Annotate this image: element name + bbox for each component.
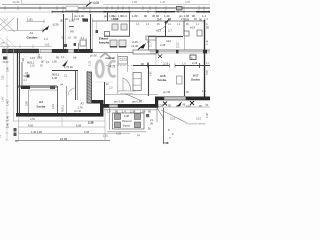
svg-text:2,1: 2,1 <box>150 118 154 122</box>
dim chain right below wall <box>158 106 210 108</box>
stair corner square 3 <box>115 122 121 128</box>
wall bottom A12 row <box>148 36 183 38</box>
svg-text:2,10: 2,10 <box>37 56 43 60</box>
dimension ticks row <box>51 11 53 14</box>
wall top-left block solid <box>2 49 39 53</box>
garden hatch diagonal 3 <box>0 24 8 32</box>
vline x86 <box>86 38 88 49</box>
svg-text:14,5: 14,5 <box>30 56 36 60</box>
dim chain center line <box>104 109 157 111</box>
hall fixture rect <box>80 40 86 46</box>
wall vertical x107 <box>107 12 109 21</box>
watermark letter C <box>109 61 116 76</box>
svg-text:90: 90 <box>144 14 148 18</box>
svg-text:lépcső: lépcső <box>123 124 131 127</box>
svg-text:A4: A4 <box>60 83 64 87</box>
A4 inner wall left <box>28 90 30 113</box>
left wall outer line <box>13 49 15 121</box>
svg-text:1,40: 1,40 <box>206 40 209 45</box>
wall vertical A16 left <box>148 66 150 97</box>
svg-text:1,81: 1,81 <box>27 18 33 22</box>
svg-text:pm 46: pm 46 <box>74 110 82 113</box>
dimension tick x72 <box>72 13 74 21</box>
A4 north wall <box>18 85 57 87</box>
interior top wall line <box>92 20 204 22</box>
svg-text:pm: pm <box>2 42 5 45</box>
garden dim line upper <box>26 20 44 22</box>
watermark letter O <box>96 61 103 77</box>
wall vertical A14 left <box>183 21 185 36</box>
svg-text:nappali: nappali <box>106 56 116 60</box>
dining table 1 <box>112 24 118 30</box>
door X below A12 <box>158 55 162 59</box>
svg-text:2,1: 2,1 <box>24 79 28 82</box>
tick x199 <box>199 63 201 68</box>
svg-text:1,46: 1,46 <box>6 100 10 106</box>
svg-text:2,10: 2,10 <box>30 65 35 68</box>
A4 north wall dark seg <box>21 86 30 89</box>
stair vline left <box>109 108 111 130</box>
north arrow mark <box>45 26 50 30</box>
svg-text:1,4: 1,4 <box>0 134 2 138</box>
svg-text:2,38: 2,38 <box>163 141 169 145</box>
dim row 2 <box>18 126 105 128</box>
svg-text:1,02: 1,02 <box>45 44 50 47</box>
door symbol blob <box>83 19 89 22</box>
kitchen bottom wall <box>104 35 130 37</box>
vert line center <box>127 57 129 72</box>
kitchen counter blob <box>105 32 110 37</box>
interior wall line <box>93 52 133 54</box>
svg-text:2,1: 2,1 <box>81 37 85 40</box>
svg-text:1,90: 1,90 <box>52 61 57 64</box>
svg-text:A14: A14 <box>190 26 195 30</box>
svg-text:1,40: 1,40 <box>52 76 58 80</box>
svg-text:A5: A5 <box>25 71 29 75</box>
svg-text:Y: Y <box>169 136 171 140</box>
door arc living <box>123 78 131 91</box>
svg-text:A3: A3 <box>30 31 34 35</box>
svg-text:2,10: 2,10 <box>196 117 202 121</box>
dim left cluster dark <box>14 128 17 132</box>
window in wall <box>40 49 52 52</box>
svg-text:2,45: 2,45 <box>160 43 166 47</box>
svg-text:2,10: 2,10 <box>89 61 92 66</box>
small rect right of watermark <box>118 57 128 65</box>
svg-text:A6: A6 <box>73 56 77 60</box>
label box on dimension line <box>66 6 78 11</box>
svg-text:A12: A12 <box>166 39 171 43</box>
window band right <box>150 51 210 53</box>
svg-text:2,62: 2,62 <box>2 75 5 80</box>
vline x78 <box>78 43 80 52</box>
bottom wall center window <box>109 104 118 107</box>
dashed line living <box>106 65 133 67</box>
svg-text:1,76 26: 1,76 26 <box>64 65 73 69</box>
tick on wall <box>147 63 149 68</box>
A4 inner wall top <box>29 89 58 91</box>
svg-text:1,02: 1,02 <box>69 19 75 23</box>
svg-text:90/2,1: 90/2,1 <box>62 104 65 112</box>
A4 east wall <box>57 86 59 113</box>
A4 east wall second face <box>66 86 68 113</box>
garden hatch diagonal 4 <box>0 18 8 25</box>
svg-text:1,40: 1,40 <box>160 0 166 4</box>
wall vertical hall right <box>90 14 92 53</box>
dimension line top chain 2 <box>0 7 210 9</box>
hall tick <box>38 54 40 58</box>
dimension line top chain 3 <box>52 11 210 13</box>
svg-text:Pinceszint lejárata: Pinceszint lejárata <box>186 122 206 125</box>
svg-text:Garden: Garden <box>27 36 38 40</box>
svg-text:2,16: 2,16 <box>192 61 198 65</box>
wall segment 2 <box>74 49 93 53</box>
inner face line center <box>105 94 158 96</box>
hall wall horizontal <box>52 70 78 72</box>
svg-text:Szoba: Szoba <box>158 78 167 82</box>
svg-text:2,38: 2,38 <box>84 130 90 134</box>
door X mark 1 <box>163 102 167 106</box>
svg-text:pinceszint lejáró: pinceszint lejáró <box>118 90 137 93</box>
A7 corner wall horizontal <box>88 100 104 104</box>
bathtub <box>133 50 156 54</box>
hall door arrow <box>62 60 68 67</box>
svg-text:14,30: 14,30 <box>13 0 20 4</box>
bottom wall center dark1 <box>103 104 109 108</box>
svg-text:1,40: 1,40 <box>6 122 10 128</box>
svg-text:K: K <box>168 128 170 132</box>
svg-text:90: 90 <box>148 109 151 113</box>
svg-text:3,65: 3,65 <box>206 70 209 75</box>
dim row 4 <box>16 140 110 142</box>
wall vertical x156 <box>155 37 157 51</box>
svg-text:-4,75: -4,75 <box>109 65 116 69</box>
dimension ticks chain 2 <box>4 6 6 9</box>
wc fixture 1 <box>184 31 189 36</box>
door gap wall A16 <box>170 65 176 67</box>
dining table 4 <box>119 40 126 47</box>
wall post 2 <box>176 50 179 54</box>
door X mark 2 <box>190 101 194 105</box>
small fixture marks <box>96 30 99 33</box>
wc fixture 2 <box>197 30 202 36</box>
svg-text:+4,05: +4,05 <box>91 1 99 5</box>
garden boundary vertical <box>17 18 19 31</box>
svg-text:2,38: 2,38 <box>158 104 164 108</box>
entrance blob <box>3 57 8 60</box>
porch wall <box>21 62 23 86</box>
svg-text:A7: A7 <box>81 102 85 106</box>
note underline <box>120 93 133 95</box>
interior wall A16 A17 top <box>133 65 210 67</box>
door blob b <box>74 43 77 46</box>
svg-text:3,1: 3,1 <box>147 40 151 44</box>
stair shaft left wall <box>156 108 158 122</box>
porch small marks <box>22 58 24 62</box>
tooltip box top <box>22 0 90 4</box>
stair diagonal <box>126 94 142 101</box>
door blob a <box>64 44 67 47</box>
svg-text:2,38: 2,38 <box>206 113 209 118</box>
stair bottom line <box>107 131 146 133</box>
svg-text:1,05: 1,05 <box>184 18 190 22</box>
svg-text:1,0: 1,0 <box>123 14 127 18</box>
leader line <box>161 110 186 123</box>
watermark roof <box>100 53 111 58</box>
svg-text:konyha: konyha <box>99 41 110 45</box>
svg-text:pm 90: pm 90 <box>90 55 97 58</box>
stair corner square 2 <box>135 114 141 120</box>
door mark top A4 <box>50 86 55 89</box>
svg-text:2,10: 2,10 <box>103 135 108 138</box>
wall vertical x129 <box>129 12 131 37</box>
stair corner square 4 <box>135 122 141 128</box>
svg-text:Szoba: Szoba <box>191 78 200 82</box>
diagonal to stairs <box>157 108 164 118</box>
left exterior wall <box>17 49 19 116</box>
wall right exterior <box>204 20 206 100</box>
wall line x117 <box>117 54 119 94</box>
dining table 3 <box>110 40 117 47</box>
ticks above left wall <box>7 45 9 49</box>
vline at bath right <box>155 54 157 66</box>
svg-text:pm 5,08: pm 5,08 <box>114 100 124 104</box>
svg-text:1,40: 1,40 <box>6 115 10 121</box>
svg-text:1,80: 1,80 <box>132 14 138 18</box>
svg-text:A6: A6 <box>70 30 74 34</box>
wall vertical A12-A13 <box>165 21 167 37</box>
stair box outer <box>113 113 145 129</box>
bottom wall right window <box>164 97 186 100</box>
svg-text:4,50: 4,50 <box>30 117 36 121</box>
svg-text:2,38: 2,38 <box>88 121 94 125</box>
dining table 2 <box>121 24 127 30</box>
svg-text:1,0: 1,0 <box>182 63 186 66</box>
door arc hall to A4 <box>68 88 76 96</box>
pen arrow 46 <box>177 102 182 107</box>
wall line y50 <box>148 49 210 51</box>
K box <box>190 55 196 60</box>
svg-text:1,0: 1,0 <box>44 37 48 41</box>
left dim chain <box>6 36 8 140</box>
svg-text:1,4: 1,4 <box>202 89 206 93</box>
svg-text:2,1: 2,1 <box>206 61 210 65</box>
svg-text:1,40 2,38: 1,40 2,38 <box>31 130 42 134</box>
svg-text:±0,00: ±0,00 <box>3 62 9 64</box>
svg-text:4,05: 4,05 <box>185 0 191 4</box>
svg-text:1,0: 1,0 <box>107 109 111 113</box>
wall vertical hall left <box>63 14 65 49</box>
bottom wall center dark2 <box>118 104 158 108</box>
wall x104 <box>104 82 106 104</box>
basement stair wall vertical <box>163 108 165 143</box>
dimension chain 3 dark segments <box>104 11 130 13</box>
svg-text:2,16: 2,16 <box>163 62 169 66</box>
svg-text:15,08: 15,08 <box>60 137 67 141</box>
door rect A16 <box>177 76 183 84</box>
bottom wall step connector <box>155 97 158 108</box>
wall post 1 <box>156 50 159 54</box>
svg-text:90/2,1: 90/2,1 <box>52 73 60 77</box>
svg-text:2,1: 2,1 <box>176 45 180 49</box>
svg-text:K: K <box>191 56 193 60</box>
window in wall 2 <box>68 49 74 52</box>
bottom wall right block dark1 <box>155 97 164 101</box>
hatched wall band <box>87 72 92 103</box>
svg-text:3,60: 3,60 <box>25 100 29 106</box>
svg-text:1,46: 1,46 <box>2 97 5 102</box>
garden hatch diagonal 5 <box>3 18 12 26</box>
door arc A13 <box>159 22 167 30</box>
svg-text:OTTHON CENTRUM: OTTHON CENTRUM <box>94 82 113 84</box>
hall wall vertical double <box>75 71 77 101</box>
garden hatch diagonal 1 <box>0 19 15 33</box>
svg-text:2,1: 2,1 <box>64 74 68 78</box>
dim row 1 <box>13 120 105 122</box>
svg-text:pm 90: pm 90 <box>163 90 171 94</box>
wardrobe <box>133 73 141 91</box>
dim row connector vlines <box>18 116 20 141</box>
wall A14 lower <box>184 36 186 50</box>
dimension line top chain 1 <box>2 4 88 6</box>
garden hatch diagonal 2 <box>0 18 14 31</box>
svg-text:6,08: 6,08 <box>76 124 82 128</box>
stair corner square 1 <box>115 114 121 120</box>
svg-text:3,90: 3,90 <box>6 66 10 72</box>
wall segment <box>52 49 68 53</box>
svg-text:4,50: 4,50 <box>28 124 34 128</box>
dash mark <box>69 26 74 28</box>
fixture rounded top <box>146 36 156 40</box>
A7 corner wall vertical <box>100 100 104 116</box>
svg-text:-0,30: -0,30 <box>52 23 59 27</box>
svg-text:pm 0,96: pm 0,96 <box>132 100 142 104</box>
svg-text:4,08: 4,08 <box>124 115 129 118</box>
dark mark A15 box <box>177 7 183 11</box>
svg-text:2,1: 2,1 <box>46 60 50 64</box>
svg-text:Pinceszi: Pinceszi <box>123 120 132 123</box>
svg-text:3,65: 3,65 <box>151 71 153 76</box>
svg-text:2,62: 2,62 <box>51 103 55 109</box>
svg-text:2,1: 2,1 <box>148 44 152 48</box>
svg-text:Szoba: Szoba <box>37 104 46 108</box>
wall A12 lower <box>148 37 150 51</box>
dim row 3 <box>18 133 130 135</box>
garden dimension line <box>8 30 43 32</box>
door arrow on wall <box>164 19 169 24</box>
svg-text:pm: pm <box>137 135 140 137</box>
stair arrow <box>140 43 146 49</box>
svg-text:1,80: 1,80 <box>132 0 138 4</box>
svg-text:1,02: 1,02 <box>74 17 80 21</box>
svg-text:1,98: 1,98 <box>113 17 119 21</box>
dimension line above wall <box>0 46 52 48</box>
bottom wall right dark2 <box>186 97 210 101</box>
svg-text:1,4: 1,4 <box>157 18 161 22</box>
svg-text:A: A <box>207 25 209 29</box>
wall post 3 <box>203 50 207 54</box>
garden lower hatch <box>0 38 10 47</box>
svg-text:2,10: 2,10 <box>186 105 191 108</box>
svg-text:+0,30: +0,30 <box>131 44 139 48</box>
svg-text:1,76: 1,76 <box>78 106 84 110</box>
wall vertical A16-A17 <box>184 66 186 97</box>
A4 bottom wall <box>16 113 104 117</box>
svg-text:2,7: 2,7 <box>168 29 172 33</box>
